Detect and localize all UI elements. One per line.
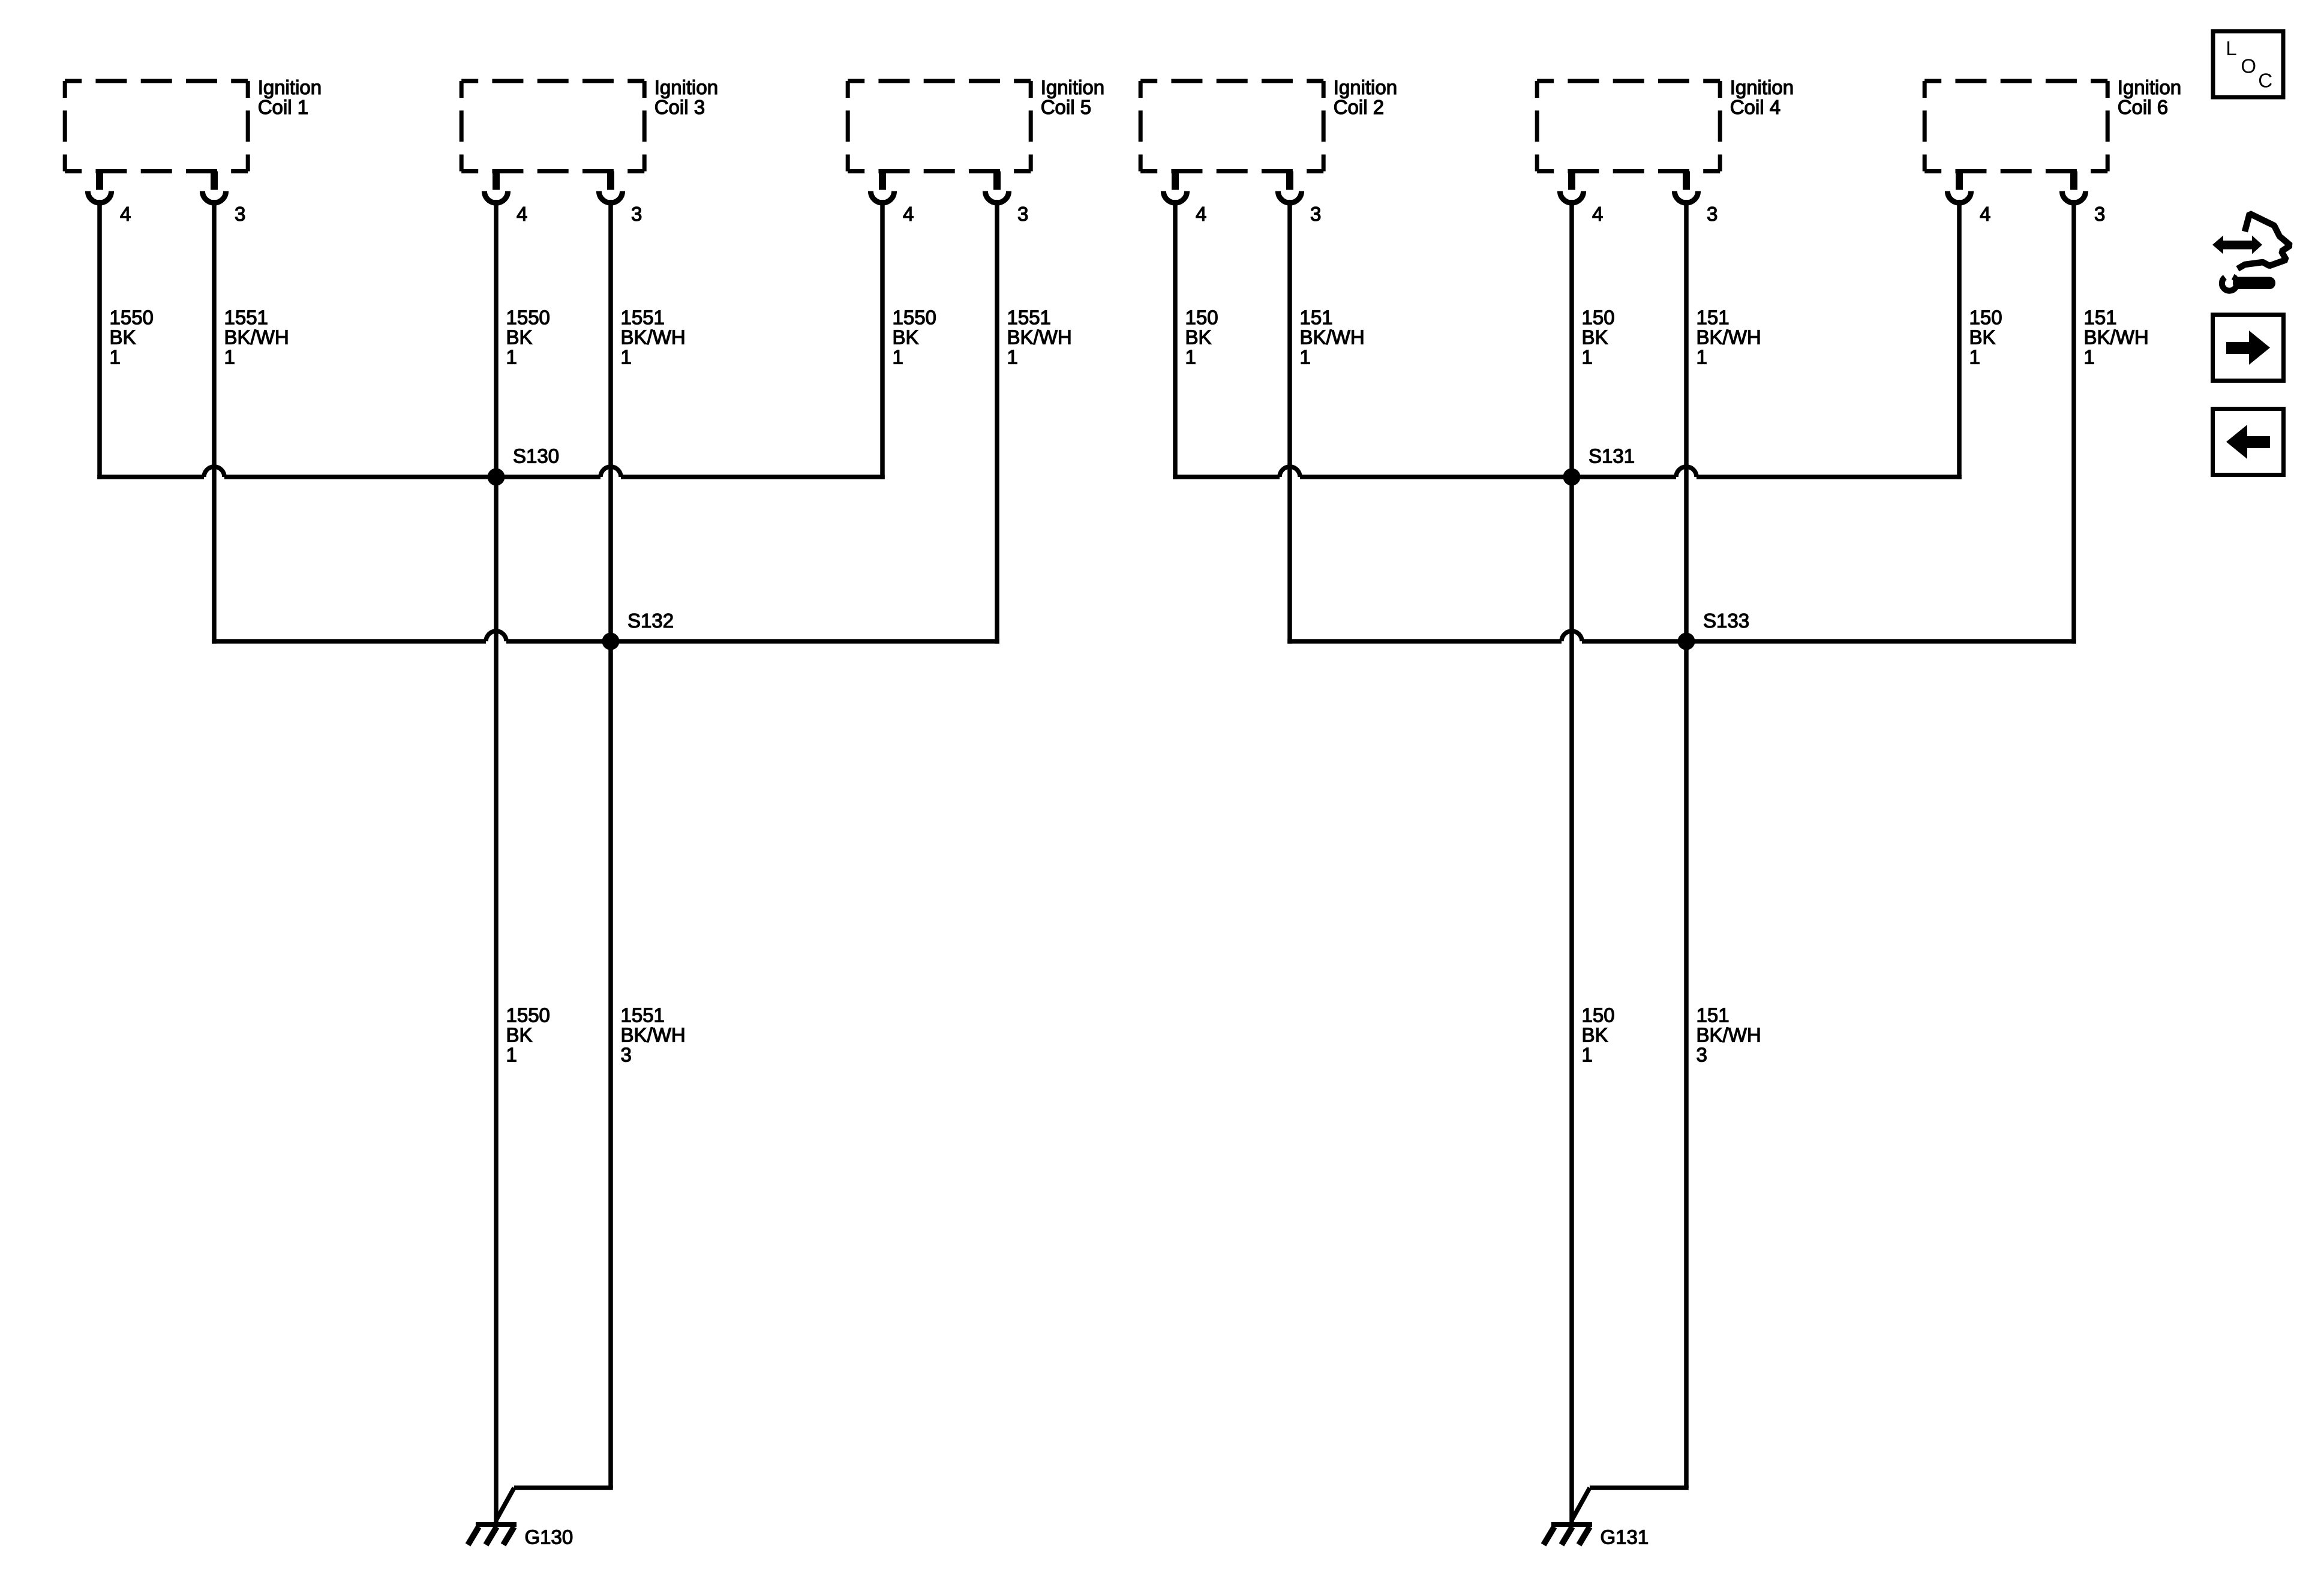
coil 6 pin 4 stub [1956, 172, 1963, 190]
wire elbow joining circuit into ground G131 [1572, 1488, 1689, 1520]
svg-text:BK: BK [110, 326, 136, 349]
svg-text:1: 1 [1582, 346, 1593, 368]
coil 1 pin 3 connector terminal cup [202, 191, 226, 203]
svg-text:1550: 1550 [506, 307, 550, 329]
coil 2 pin 4 stub [1172, 172, 1179, 190]
svg-text:4: 4 [1980, 203, 1990, 225]
svg-text:1: 1 [506, 1044, 517, 1066]
svg-text:1: 1 [506, 346, 517, 368]
svg-text:Coil 4: Coil 4 [1730, 96, 1780, 118]
splice bus S133 horizontal wire [1287, 631, 2076, 641]
ignition coil 3 dashed connector box [461, 81, 644, 172]
svg-text:Ignition: Ignition [1334, 76, 1397, 98]
backward page arrow icon [2213, 409, 2284, 475]
svg-text:BK: BK [893, 326, 919, 349]
wire label circuit 151 at coil 2 pin 3 [1300, 307, 1365, 368]
coil 3 pin 4 stub [493, 172, 500, 190]
wire label circuit 1550 at coil 3 pin 4 [506, 307, 550, 368]
svg-text:3: 3 [621, 1044, 632, 1066]
coil 5 pin 3 connector terminal cup [985, 191, 1008, 203]
wire from coil 6 pin 3 down to low-ref bus [2071, 200, 2076, 644]
coil 5 pin 3 stub [993, 172, 1001, 190]
wire label circuit 150 at coil 2 pin 4 [1185, 307, 1218, 368]
svg-text:G131: G131 [1601, 1526, 1649, 1548]
wire label circuit 1551 at coil 5 pin 3 [1007, 307, 1072, 368]
svg-text:1: 1 [1185, 346, 1196, 368]
svg-text:151: 151 [1300, 307, 1333, 329]
splice S131 junction dot [1563, 469, 1581, 486]
svg-text:4: 4 [120, 203, 131, 225]
svg-text:S130: S130 [513, 445, 559, 467]
ignition coil 3 label [654, 76, 718, 118]
coil 5 pin 4 stub [879, 172, 886, 190]
forward page arrow icon [2213, 315, 2284, 381]
coil 5 pin 4 connector terminal cup [870, 191, 894, 203]
coil 2 pin 4 connector terminal cup [1163, 191, 1187, 203]
svg-text:Coil 5: Coil 5 [1041, 96, 1091, 118]
wire label circuit 150 at coil 4 pin 4 [1582, 307, 1615, 368]
coil 1 pin 3 stub [211, 172, 218, 190]
svg-text:3: 3 [1310, 203, 1321, 225]
svg-text:BK/WH: BK/WH [2084, 326, 2149, 349]
svg-text:1551: 1551 [621, 307, 665, 329]
svg-text:S131: S131 [1589, 445, 1635, 467]
svg-text:4: 4 [903, 203, 914, 225]
svg-text:3: 3 [235, 203, 245, 225]
svg-text:S133: S133 [1703, 610, 1749, 632]
wire label circuit 1551 at coil 3 pin 3 [621, 307, 686, 368]
LOC legend box icon [2213, 31, 2283, 97]
ground symbol G130 [468, 1524, 517, 1545]
svg-text:151: 151 [1697, 1004, 1730, 1026]
svg-text:150: 150 [1582, 307, 1615, 329]
lower wire label circuit 151 [1697, 1004, 1761, 1066]
svg-text:1: 1 [224, 346, 235, 368]
svg-text:1: 1 [1697, 346, 1707, 368]
svg-text:1551: 1551 [621, 1004, 665, 1026]
svg-text:150: 150 [1185, 307, 1218, 329]
svg-text:Coil 3: Coil 3 [654, 96, 705, 118]
svg-text:BK/WH: BK/WH [1697, 1024, 1761, 1046]
coil 6 pin 4 connector terminal cup [1947, 191, 1971, 203]
ignition coil 1 dashed connector box [65, 81, 248, 172]
coil 4 pin 4 stub [1568, 172, 1575, 190]
lower wire label circuit 1550 [506, 1004, 550, 1066]
lower wire label circuit 1551 [621, 1004, 686, 1066]
coil 2 pin 3 connector terminal cup [1278, 191, 1301, 203]
svg-text:3: 3 [1017, 203, 1028, 225]
ignition coil 5 dashed connector box [848, 81, 1031, 172]
wire label circuit 1551 at coil 1 pin 3 [224, 307, 289, 368]
svg-text:151: 151 [1697, 307, 1730, 329]
coil 4 pin 3 connector terminal cup [1674, 191, 1698, 203]
coil 3 pin 4 connector terminal cup [484, 191, 508, 203]
svg-text:1551: 1551 [1007, 307, 1051, 329]
wire label circuit 1550 at coil 1 pin 4 [110, 307, 154, 368]
lower wire label circuit 150 [1582, 1004, 1615, 1066]
svg-text:1: 1 [1300, 346, 1311, 368]
svg-text:3: 3 [631, 203, 642, 225]
wire from coil 2 pin 3 down to low-ref bus [1287, 200, 1292, 644]
svg-text:1: 1 [1007, 346, 1018, 368]
wire from coil 6 pin 4 down to ground bus [1957, 200, 1962, 479]
svg-text:1550: 1550 [506, 1004, 550, 1026]
splice S130 junction dot [488, 469, 505, 486]
svg-text:3: 3 [1697, 1044, 1707, 1066]
svg-text:C: C [2258, 70, 2272, 92]
svg-text:BK: BK [506, 1024, 533, 1046]
svg-text:4: 4 [517, 203, 527, 225]
svg-text:Ignition: Ignition [1041, 76, 1104, 98]
svg-text:1: 1 [1582, 1044, 1593, 1066]
wire from coil 4 pin 4 through splice down to ground [1569, 200, 1574, 1524]
wire from coil 2 pin 4 down to ground bus [1173, 200, 1178, 479]
ignition coil 2 dashed connector box [1140, 81, 1323, 172]
svg-text:4: 4 [1196, 203, 1206, 225]
wire from coil 1 pin 4 down to ground bus [97, 200, 102, 479]
svg-text:BK/WH: BK/WH [224, 326, 289, 349]
wire from coil 4 pin 3 through splice down to lower elbow [1684, 200, 1689, 1488]
splice bus S132 horizontal wire [212, 631, 999, 641]
svg-text:1: 1 [893, 346, 903, 368]
svg-text:BK: BK [1185, 326, 1212, 349]
ignition coil 1 label [258, 76, 322, 118]
wire label circuit 1550 at coil 5 pin 4 [893, 307, 936, 368]
splice S132 junction dot [602, 633, 620, 650]
svg-text:BK: BK [1582, 1024, 1608, 1046]
coil 4 pin 4 connector terminal cup [1560, 191, 1583, 203]
ignition coil 4 label [1730, 76, 1794, 118]
svg-text:L: L [2226, 37, 2236, 59]
svg-text:3: 3 [2094, 203, 2105, 225]
wire from coil 5 pin 4 down to ground bus [880, 200, 885, 479]
svg-text:Ignition: Ignition [2118, 76, 2181, 98]
svg-text:S132: S132 [627, 610, 674, 632]
svg-text:1: 1 [1969, 346, 1980, 368]
svg-text:Coil 6: Coil 6 [2118, 96, 2168, 118]
svg-text:O: O [2241, 55, 2256, 77]
svg-text:1: 1 [110, 346, 121, 368]
coil 1 pin 4 stub [96, 172, 103, 190]
svg-text:Coil 1: Coil 1 [258, 96, 308, 118]
wire from coil 1 pin 3 down to low-ref bus [212, 200, 217, 644]
coil 1 pin 4 connector terminal cup [88, 191, 111, 203]
svg-text:G130: G130 [525, 1526, 574, 1548]
ground symbol G131 [1544, 1524, 1592, 1545]
svg-text:150: 150 [1582, 1004, 1615, 1026]
ignition coil 6 label [2118, 76, 2181, 118]
svg-text:Ignition: Ignition [1730, 76, 1794, 98]
vehicle outline icon with double arrow and wrench [2212, 214, 2290, 291]
wire from coil 3 pin 3 through splice down to lower elbow [608, 200, 613, 1488]
svg-text:BK/WH: BK/WH [1300, 326, 1365, 349]
svg-text:1551: 1551 [224, 307, 268, 329]
splice bus S130 horizontal wire [97, 467, 885, 477]
svg-text:1550: 1550 [110, 307, 154, 329]
splice bus S131 horizontal wire [1173, 467, 1962, 477]
svg-text:Ignition: Ignition [258, 76, 322, 98]
coil 6 pin 3 stub [2070, 172, 2077, 190]
svg-text:BK: BK [1582, 326, 1608, 349]
svg-text:BK/WH: BK/WH [1007, 326, 1072, 349]
wire from coil 3 pin 4 through splice down to ground [494, 200, 499, 1524]
coil 2 pin 3 stub [1286, 172, 1293, 190]
svg-text:Ignition: Ignition [654, 76, 718, 98]
ignition coil 4 dashed connector box [1537, 81, 1720, 172]
svg-text:BK/WH: BK/WH [1697, 326, 1761, 349]
coil 3 pin 3 connector terminal cup [599, 191, 622, 203]
wire elbow joining circuit into ground G130 [496, 1488, 613, 1520]
svg-text:1: 1 [621, 346, 632, 368]
splice S133 junction dot [1678, 633, 1695, 650]
coil 4 pin 3 stub [1683, 172, 1690, 190]
svg-text:150: 150 [1969, 307, 2002, 329]
wire from coil 5 pin 3 down to low-ref bus [995, 200, 999, 644]
svg-text:Coil 2: Coil 2 [1334, 96, 1384, 118]
svg-text:3: 3 [1707, 203, 1718, 225]
svg-text:4: 4 [1592, 203, 1603, 225]
ignition coil 6 dashed connector box [1924, 81, 2107, 172]
svg-text:1550: 1550 [893, 307, 936, 329]
coil 3 pin 3 stub [607, 172, 614, 190]
svg-text:151: 151 [2084, 307, 2117, 329]
wire label circuit 151 at coil 4 pin 3 [1697, 307, 1761, 368]
svg-text:BK/WH: BK/WH [621, 1024, 686, 1046]
wire label circuit 150 at coil 6 pin 4 [1969, 307, 2002, 368]
ignition coil 5 label [1041, 76, 1104, 118]
wire label circuit 151 at coil 6 pin 3 [2084, 307, 2149, 368]
ignition coil 2 label [1334, 76, 1397, 118]
coil 6 pin 3 connector terminal cup [2062, 191, 2085, 203]
svg-text:BK: BK [506, 326, 533, 349]
svg-text:1: 1 [2084, 346, 2095, 368]
svg-text:BK: BK [1969, 326, 1996, 349]
svg-text:BK/WH: BK/WH [621, 326, 686, 349]
